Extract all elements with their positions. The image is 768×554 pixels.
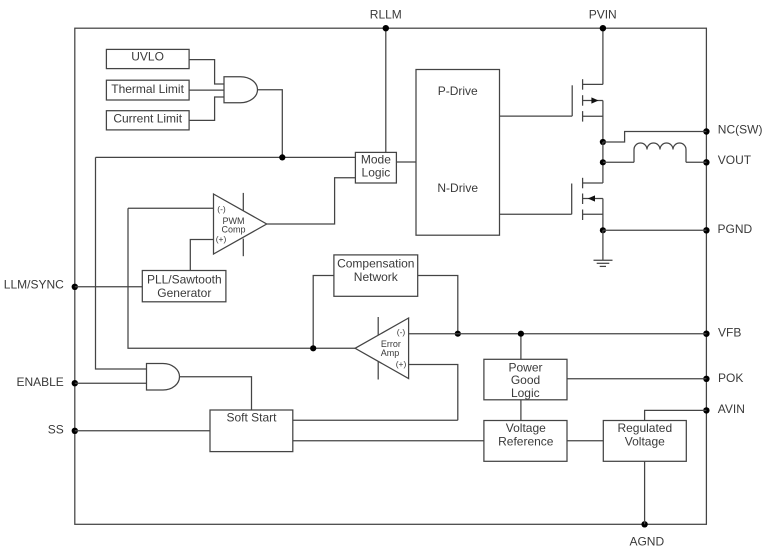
wire LLM/SYNC to PLL [75,286,143,288]
svg-text:AGND: AGND [629,534,664,548]
wire UVLO to AND gate [189,60,224,84]
node comp-left junction [310,345,316,351]
transistor Q2 body wire [583,198,603,200]
node VFB-PGL junction [518,331,524,337]
wire Compensation left to error amp output [313,276,334,349]
wire SW column [602,142,604,183]
wire monitor rail to enable AND [96,157,147,369]
wire Power Good Logic to Voltage Reference [520,400,522,421]
svg-text:SS: SS [48,423,64,437]
error amp cross line bottom [377,362,379,380]
transistor Q1 source wire [583,115,603,117]
node SW upper [600,139,606,145]
svg-text:(+): (+) [216,234,227,244]
svg-text:RLLM: RLLM [370,8,402,22]
svg-text:PLL/Sawtooth: PLL/Sawtooth [147,273,222,287]
svg-text:POK: POK [718,371,743,385]
inductor L1 [634,143,686,150]
transistor Q2 gate bar [571,184,573,215]
svg-text:UVLO: UVLO [131,50,164,64]
wire AND output to monitor row [258,90,283,158]
error amp cross line top [377,317,379,336]
wire Mode Logic to Drive block [396,161,416,163]
svg-text:(+): (+) [396,359,407,369]
svg-text:Thermal Limit: Thermal Limit [111,82,184,96]
node PVIN [600,25,606,31]
node POK [703,376,709,382]
node AGND [641,521,647,527]
wire P-Drive to Q1 gate [500,115,573,117]
transistor Q1 channel segment 2 [582,95,584,106]
transistor Q2 body arrow [588,195,595,201]
block UVLO [106,49,189,68]
PWM comp clock line bottom [242,239,244,257]
wire to ground [602,230,604,260]
svg-text:(-): (-) [397,327,406,337]
transistor Q2 NMOS drain stub [583,182,603,184]
node SS [72,428,78,434]
transistor Q1 body arrow [591,97,598,103]
wire SW to NC(SW) pin [603,132,707,143]
wire PWM comp minus input rail [128,207,214,209]
block Current Limit [106,111,189,130]
wire error amp plus input [409,365,458,421]
wire RLLM to Mode Logic [385,28,387,152]
node SW lower [600,159,606,165]
inductor L1 left stub [633,150,635,163]
wire AVIN to Regulated Voltage [645,410,707,420]
block Thermal Limit [106,80,189,100]
node RLLM [383,25,389,31]
wire Q1 source column [602,101,604,143]
block Power Good Logic [484,359,567,400]
svg-text:P-Drive: P-Drive [438,84,478,98]
svg-text:(-): (-) [217,204,226,214]
node PGND junction [600,227,606,233]
svg-text:Amp: Amp [381,348,400,358]
node VOUT [703,159,709,165]
svg-text:Soft Start: Soft Start [226,411,277,425]
wire monitor row to Mode Logic [96,156,356,158]
transistor Q1 channel segment 1 [582,79,584,90]
svg-text:Voltage: Voltage [506,421,546,435]
node LLM/SYNC [72,284,78,290]
op-amp Error Amp [355,318,409,379]
svg-text:Logic: Logic [362,166,391,180]
wire enable AND output to Soft Start [180,377,252,410]
block P-Drive / N-Drive [416,70,500,236]
AND gate U2 (enable) [147,364,180,391]
wire SW to inductor [603,161,634,163]
wire ENABLE to AND gate [75,382,147,384]
transistor Q2 channel segment 3 [582,210,584,221]
transistor Q2 channel segment 2 [582,194,584,205]
svg-text:Good: Good [511,373,540,387]
transistor Q2 source wire [583,213,603,215]
block PLL/Sawtooth Generator [142,271,226,302]
wire N-Drive to Q2 gate [500,213,572,215]
svg-text:Current Limit: Current Limit [113,112,182,126]
transistor Q1 channel segment 3 [582,111,584,122]
wire Regulated Voltage to AGND [644,461,646,524]
AND gate U1 (fault logic) [224,77,258,103]
block Compensation Network [334,255,418,296]
wire soft start to plus rail [293,419,458,421]
node ENABLE [72,380,78,386]
svg-text:LLM/SYNC: LLM/SYNC [4,277,64,291]
wire inductor to VOUT pin [686,161,706,163]
wire Soft Start to Voltage Reference [293,440,484,442]
svg-text:Mode: Mode [361,153,391,167]
svg-text:VOUT: VOUT [718,153,752,167]
node AVIN [703,407,709,413]
svg-text:Compensation: Compensation [337,257,414,271]
svg-text:VFB: VFB [718,326,741,340]
wire PWM comp output to Mode Logic [267,178,356,224]
node monitor junction [279,154,285,160]
PWM comp clock line top [242,193,244,211]
wire Power Good Logic to POK [567,378,706,380]
svg-text:Logic: Logic [511,386,540,400]
transistor Q1 body wire [583,100,603,102]
svg-text:PVIN: PVIN [589,8,617,22]
transistor Q1 PMOS drain stub [583,83,603,85]
svg-text:N-Drive: N-Drive [437,181,478,195]
wire VFB to Power Good Logic [520,334,522,360]
node comp-right junction [455,331,461,337]
transistor Q1 gate bar [571,85,573,116]
svg-text:PGND: PGND [718,222,753,236]
transistor Q2 channel segment 1 [582,178,584,189]
wire PGND row [603,229,707,231]
svg-text:Voltage: Voltage [625,434,665,448]
ground [594,260,613,266]
block Mode Logic [355,152,396,183]
svg-text:ENABLE: ENABLE [16,375,63,389]
wire Voltage Reference to Regulated Voltage [567,440,603,442]
svg-text:AVIN: AVIN [718,402,745,416]
svg-text:Network: Network [354,270,399,284]
block Voltage Reference [484,421,567,462]
svg-text:Regulated: Regulated [617,421,672,435]
wire Current Limit to AND gate [189,97,224,120]
svg-text:NC(SW): NC(SW) [718,123,763,137]
wire Compensation right to VFB row [418,276,458,334]
wire PWM comp plus input from PLL [190,240,213,271]
block Regulated Voltage [603,421,686,462]
wire Q2 source column [602,199,604,231]
IC boundary [75,28,707,524]
wire Thermal Limit to AND gate [189,89,224,91]
svg-text:Reference: Reference [498,434,554,448]
wire minus rail to error amp output [128,208,355,348]
svg-text:Generator: Generator [157,286,211,300]
comparator PWM Comp [214,194,267,254]
block Soft Start [210,410,293,452]
wire SS to Soft Start [75,430,210,432]
node PGND [703,227,709,233]
wire PVIN to PMOS drain [602,28,604,84]
node VFB [703,331,709,337]
wire VFB row [409,333,707,335]
inductor L1 right stub [685,150,687,163]
node NC(SW) [703,128,709,134]
